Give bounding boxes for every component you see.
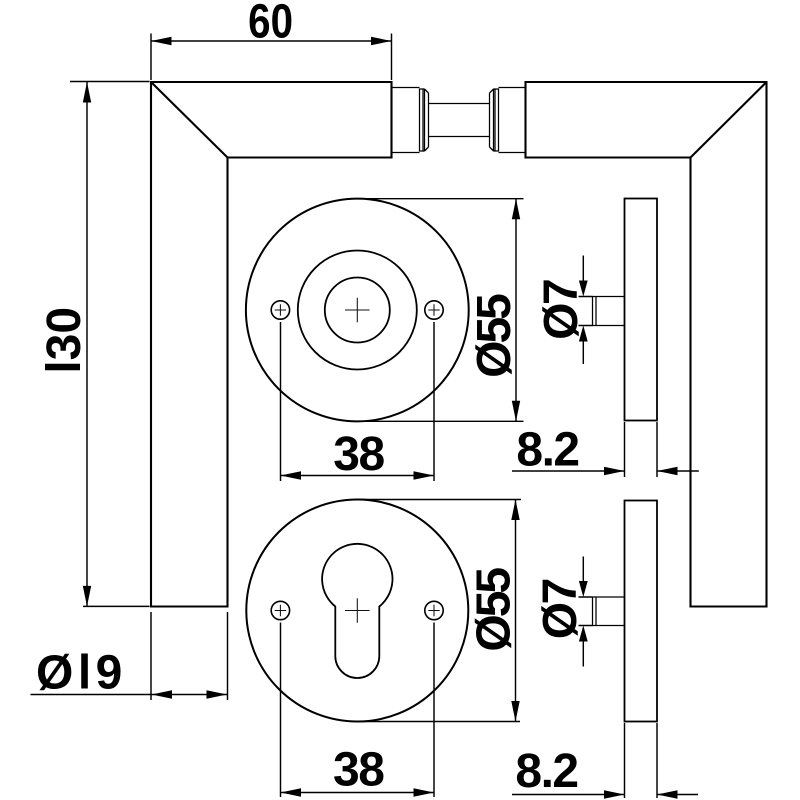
dim 8.2 lower line [512, 794, 698, 796]
upper rosette middle circle [298, 251, 417, 370]
dim O55 lower line [515, 500, 517, 722]
svg-text:8.2: 8.2 [515, 745, 577, 798]
dim 60 line [151, 40, 392, 42]
lower rosette center cross [345, 598, 370, 623]
left neck [392, 88, 420, 153]
upper side-view spindle stub [593, 297, 625, 326]
dim 38 lower line [281, 792, 435, 794]
dim O55 upper line [515, 199, 517, 422]
dim 38 upper line [281, 475, 435, 477]
lower left screw [271, 601, 289, 619]
dim 38 upper extension lines [281, 322, 435, 481]
right handle chamfer line [691, 82, 767, 158]
right collar ring 1 [495, 89, 499, 151]
dim 38 lower arrows [281, 788, 302, 796]
upper right screw [425, 301, 443, 319]
dim 8.2 lower arrows [604, 790, 625, 798]
dim 8.2 lower extension lines [625, 723, 658, 798]
upper side-view rosette plate [625, 199, 658, 421]
lower left screw cross [275, 605, 286, 616]
dim 8.2 upper line [512, 470, 699, 472]
dim O19 extension lines [151, 612, 228, 700]
dim 60 arrows [151, 37, 172, 45]
upper rosette inner circle [325, 278, 390, 343]
dim O55 upper extension lines [357, 199, 523, 422]
upper stub dimension ticks [579, 297, 593, 326]
left handle outline [151, 82, 392, 607]
svg-text:Øl9: Øl9 [36, 646, 127, 699]
upper right screw cross [428, 304, 439, 315]
upper rosette center cross [345, 298, 370, 323]
dim O7 lower arrows [582, 557, 584, 667]
lower right screw [425, 601, 443, 619]
upper left screw cross [275, 304, 286, 315]
svg-text:Ø55: Ø55 [468, 568, 521, 652]
dim 60 extension lines [151, 34, 392, 81]
dim 8.2 upper arrows [604, 467, 625, 475]
lower right screw cross [428, 605, 439, 616]
dim O19 arrows [152, 690, 173, 698]
svg-text:60: 60 [248, 0, 293, 48]
lower side-view spindle stub [593, 597, 625, 626]
upper left screw [271, 301, 289, 319]
lower stub dimension ticks [579, 597, 593, 626]
upper rosette outer circle [246, 199, 469, 422]
left collar ring 2 chamfered [423, 89, 429, 151]
dim 38 lower extension lines [281, 623, 435, 798]
dim O55 lower arrows [511, 500, 519, 521]
left handle chamfer line [151, 82, 228, 158]
right handle outline [526, 82, 767, 607]
dim 130 extension lines [70, 82, 150, 607]
lower rosette keyhole [322, 544, 392, 678]
dim O55 lower extension lines [357, 500, 521, 722]
right neck [499, 88, 526, 153]
left collar ring 1 [420, 89, 424, 151]
svg-text:l30: l30 [38, 307, 91, 374]
dim O19 line [31, 694, 228, 696]
svg-text:8.2: 8.2 [516, 423, 578, 476]
dim 130 line [86, 82, 88, 606]
dim O55 upper arrows [512, 199, 520, 220]
svg-text:Ø7: Ø7 [535, 280, 588, 340]
lower side-view rosette plate [625, 501, 658, 722]
dim 8.2 upper extension lines [625, 422, 658, 477]
svg-text:38: 38 [333, 428, 384, 481]
svg-text:Ø55: Ø55 [468, 294, 521, 378]
svg-text:Ø7: Ø7 [534, 579, 587, 639]
dim 38 upper arrows [281, 471, 302, 479]
svg-text:38: 38 [333, 743, 384, 796]
lower rosette outer circle [246, 500, 468, 722]
spindle bar [429, 104, 490, 137]
dim 130 arrows [83, 82, 91, 103]
right collar ring 2 chamfered [490, 89, 496, 151]
dim O7 upper arrows [582, 256, 584, 365]
